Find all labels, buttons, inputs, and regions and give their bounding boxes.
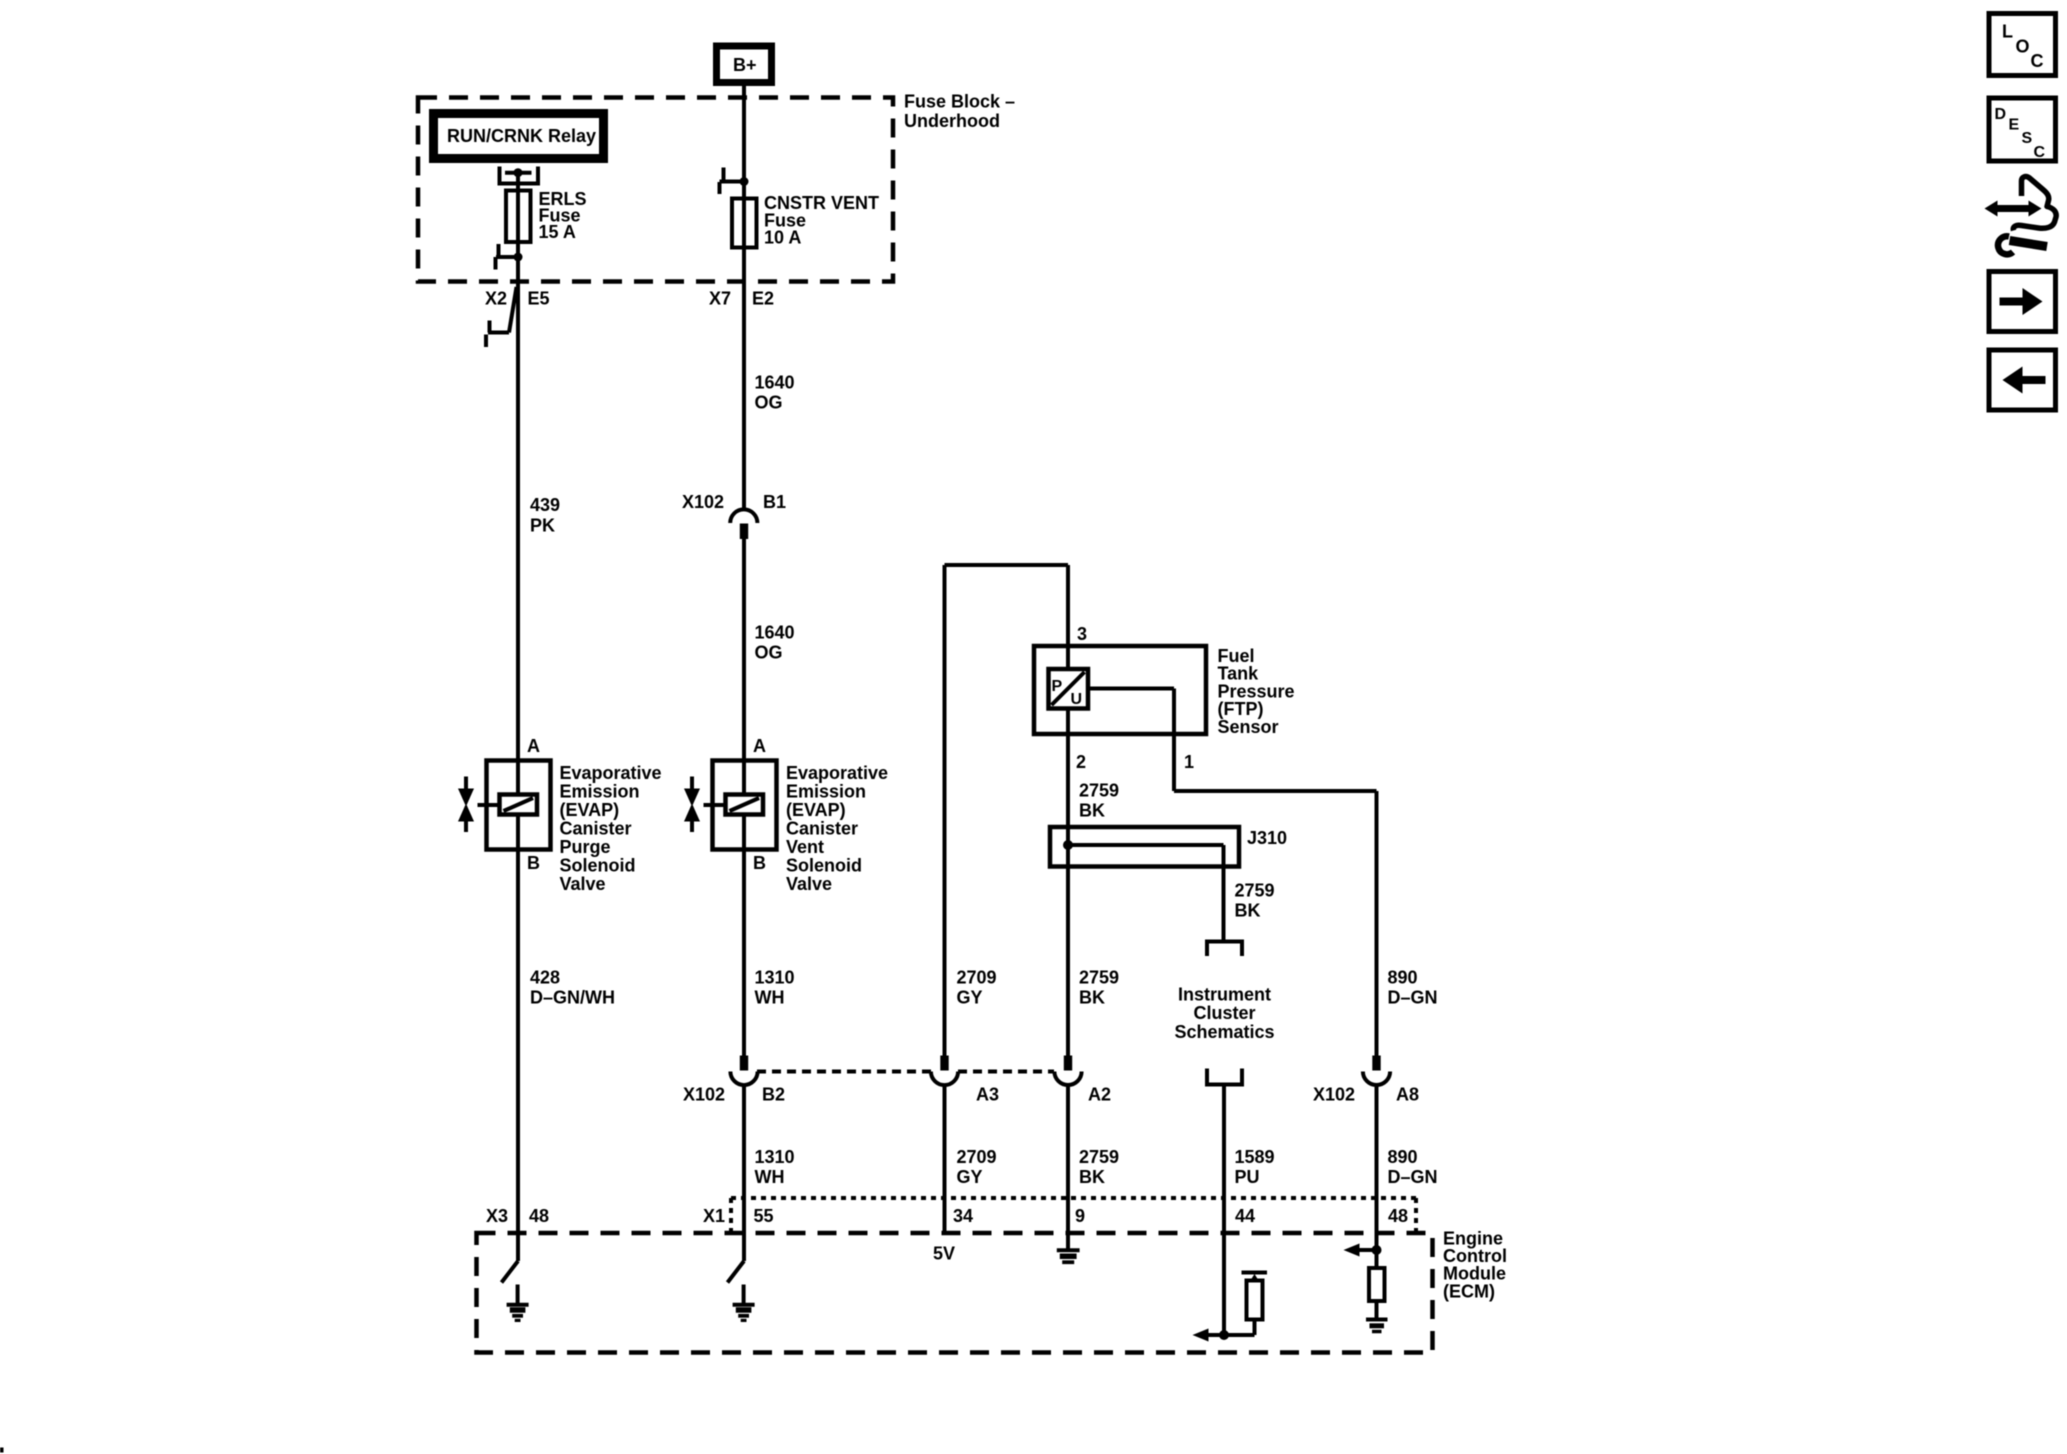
ECM pin 55 (X1) switch blade (728, 1261, 745, 1283)
svg-text:Evaporative: Evaporative (560, 763, 662, 783)
svg-text:X2: X2 (485, 289, 507, 309)
svg-text:Emission: Emission (560, 782, 640, 802)
svg-text:BK: BK (1079, 987, 1105, 1007)
svg-text:B: B (753, 853, 766, 873)
svg-text:Valve: Valve (560, 874, 606, 894)
svg-text:2709: 2709 (957, 1147, 997, 1167)
fuse F1 ERLS 15A (506, 191, 531, 243)
svg-text:U: U (1071, 691, 1083, 708)
svg-text:428: 428 (530, 967, 560, 987)
svg-text:3: 3 (1077, 624, 1087, 644)
wire label 890 D-GN (lower) (1388, 1147, 1438, 1187)
svg-text:E2: E2 (752, 289, 774, 309)
svg-text:A3: A3 (976, 1085, 999, 1105)
svg-text:2709: 2709 (957, 967, 997, 987)
FTP sensor box (1034, 646, 1206, 734)
svg-text:Vent: Vent (786, 837, 824, 857)
icon DESC button (1989, 98, 2056, 161)
node X7/E2 labels (709, 289, 774, 309)
wire label 1310 WH (upper) (755, 967, 795, 1007)
wire label 1640 OG (upper) (755, 372, 795, 412)
svg-text:(EVAP): (EVAP) (560, 800, 620, 820)
icon wiring repair tool (1985, 177, 2057, 255)
wire A8 to ECM pin 48 (1375, 1085, 1379, 1268)
ECM pin 48 signal arrow (1344, 1244, 1382, 1257)
connector X102 pin A8 (1363, 1056, 1390, 1086)
wire B+ to fuse block (742, 86, 746, 168)
svg-text:X3: X3 (486, 1206, 508, 1226)
svg-text:890: 890 (1388, 1147, 1418, 1167)
svg-text:BK: BK (1079, 1167, 1105, 1187)
svg-text:2759: 2759 (1079, 1147, 1119, 1167)
X102 inline connector row dashed line (757, 1070, 1054, 1074)
svg-text:L: L (2002, 22, 2013, 42)
svg-text:(ECM): (ECM) (1443, 1281, 1495, 1301)
wire FTP pin3 drop (1066, 565, 1070, 646)
svg-text:D–GN: D–GN (1388, 1167, 1438, 1187)
svg-text:D: D (1995, 106, 2007, 123)
wire 5V reference feed (horizontal top) (945, 563, 1069, 567)
wire label 2709 GY (upper) (957, 967, 997, 1007)
splice J310 (1050, 827, 1239, 942)
wire label 2759 BK (below J310) (1235, 881, 1275, 921)
wire A2 to ECM pin 9 (1066, 1085, 1070, 1249)
wire purge valve B to ECM X3-48 (516, 850, 520, 1261)
svg-text:Sensor: Sensor (1218, 717, 1279, 737)
wire 2709 GY vertical (943, 565, 947, 1056)
svg-text:X102: X102 (1313, 1085, 1355, 1105)
svg-text:1589: 1589 (1235, 1147, 1275, 1167)
svg-text:9: 9 (1075, 1206, 1085, 1226)
svg-text:48: 48 (1388, 1206, 1408, 1226)
svg-text:PK: PK (530, 516, 555, 536)
svg-text:2: 2 (1076, 752, 1086, 772)
vent valve coil (704, 795, 764, 815)
svg-text:Evaporative: Evaporative (786, 763, 888, 783)
svg-text:WH: WH (755, 1167, 785, 1187)
svg-text:A: A (753, 736, 766, 756)
purge valve actuator triangles (458, 777, 474, 833)
wire label 1640 OG (lower) (755, 622, 795, 662)
icon back arrow button (1989, 350, 2056, 410)
svg-text:D–GN: D–GN (1388, 987, 1438, 1007)
svg-text:GY: GY (957, 987, 983, 1007)
svg-text:X7: X7 (709, 289, 731, 309)
svg-text:B: B (527, 853, 540, 873)
svg-text:1640: 1640 (755, 372, 795, 392)
FTP sensor name (1218, 646, 1295, 737)
svg-text:OG: OG (755, 393, 783, 413)
FTP internal wire pin1 (1088, 689, 1174, 735)
instrument cluster label (1174, 985, 1274, 1042)
ECM pin 48 internal resistor R2 (1369, 1268, 1385, 1318)
svg-text:34: 34 (953, 1206, 973, 1226)
fuse block underhood dashed box (418, 98, 893, 282)
page corner mark (0, 1448, 4, 1453)
off-page connector from instrument cluster (bottom bracket) (1207, 1069, 1242, 1085)
svg-text:15 A: 15 A (539, 222, 576, 242)
wire vent valve B to X102 B2 (742, 850, 746, 1056)
ECM pin 44 signal arrow (1193, 1329, 1255, 1342)
vent valve actuator triangles (684, 777, 700, 833)
svg-text:X1: X1 (703, 1206, 725, 1226)
svg-text:BK: BK (1079, 800, 1105, 820)
svg-text:S: S (2022, 130, 2033, 147)
svg-text:48: 48 (529, 1206, 549, 1226)
icon LOC button (1989, 14, 2056, 76)
svg-text:C: C (2031, 51, 2044, 71)
svg-text:Emission: Emission (786, 782, 866, 802)
wire 890 D-GN from pin1 (1174, 734, 1377, 1056)
wire label 890 D-GN (upper) (1388, 967, 1438, 1007)
ECM dashed box (477, 1233, 1433, 1353)
ECM name (1443, 1229, 1507, 1302)
svg-text:D–GN/WH: D–GN/WH (530, 987, 615, 1007)
svg-text:PU: PU (1235, 1167, 1260, 1187)
wire label 2759 BK (upper row) (1079, 967, 1119, 1007)
wire CNSTR fuse down to X102 B1 (742, 168, 746, 510)
svg-text:BK: BK (1235, 901, 1261, 921)
ground G3 (ECM pin 9) (1057, 1250, 1080, 1262)
connector X102 pin A3 (931, 1056, 958, 1086)
fuse block label (904, 92, 1015, 131)
off-page connector to instrument cluster (top bracket) (1207, 942, 1242, 957)
purge valve coil (478, 795, 538, 815)
svg-text:5V: 5V (933, 1244, 955, 1264)
fuse F2 CNSTR VENT 10A (732, 199, 757, 248)
svg-text:X102: X102 (682, 492, 724, 512)
svg-text:B1: B1 (763, 492, 786, 512)
EVAP canister purge solenoid valve (487, 761, 551, 850)
icon forward arrow button (1989, 272, 2056, 332)
relay contact clip terminal (ERLS top) (500, 167, 539, 184)
svg-text:Fuse Block –: Fuse Block – (904, 92, 1015, 112)
EVAP canister vent solenoid valve (713, 761, 777, 850)
svg-text:B+: B+ (733, 55, 757, 75)
wire A3 to ECM pin 34 (943, 1085, 947, 1235)
svg-text:Solenoid: Solenoid (786, 856, 862, 876)
ground G1 (ECM X3-48) (507, 1285, 529, 1321)
svg-text:O: O (2016, 37, 2030, 57)
svg-text:1640: 1640 (755, 622, 795, 642)
FTP P/U transducer symbol (1049, 646, 1089, 709)
svg-text:2759: 2759 (1235, 881, 1275, 901)
vent valve name (786, 763, 888, 894)
ECM pin row labels (486, 1206, 1408, 1226)
purge valve pin labels A B (527, 736, 540, 873)
svg-text:A: A (527, 736, 540, 756)
svg-text:Instrument: Instrument (1178, 985, 1271, 1005)
wire label 428 D-GN/WH (530, 967, 615, 1007)
svg-text:Purge: Purge (560, 837, 611, 857)
svg-text:E: E (2009, 117, 2020, 134)
svg-text:A2: A2 (1088, 1085, 1111, 1105)
svg-text:J310: J310 (1247, 828, 1287, 848)
svg-text:55: 55 (754, 1206, 774, 1226)
wire label 2759 BK (lower row) (1079, 1147, 1119, 1187)
wire label 1589 PU (1235, 1147, 1275, 1187)
svg-text:1310: 1310 (755, 967, 795, 987)
svg-text:Solenoid: Solenoid (560, 856, 636, 876)
svg-text:E5: E5 (528, 289, 550, 309)
svg-text:Schematics: Schematics (1174, 1022, 1274, 1042)
svg-text:WH: WH (755, 987, 785, 1007)
relay K1 RUN/CRNK (434, 114, 604, 159)
node X2/E5 labels (485, 289, 550, 309)
svg-text:1310: 1310 (755, 1147, 795, 1167)
wire relay clip to fuse (516, 173, 520, 192)
wire label 1310 WH (lower) (755, 1147, 795, 1187)
fuse clip terminal (ERLS bottom) (496, 244, 523, 270)
X102 row labels (683, 1085, 1419, 1105)
svg-text:Valve: Valve (786, 874, 832, 894)
X102 B1 labels (682, 492, 786, 512)
wire label 439 PK (530, 495, 560, 536)
svg-text:P: P (1052, 678, 1063, 695)
connector pass-through clip X2/E5 (486, 287, 517, 347)
svg-text:C: C (2034, 144, 2046, 161)
svg-text:2759: 2759 (1079, 781, 1119, 801)
ECM pin 48 (X3) switch blade (502, 1261, 519, 1283)
wire B1 to EVAP vent valve (742, 539, 746, 760)
svg-text:Canister: Canister (786, 819, 858, 839)
ground G4 (ECM pin 48) (1366, 1320, 1388, 1332)
connector X102 pin B2 (730, 1056, 757, 1086)
svg-text:Canister: Canister (560, 819, 632, 839)
connector X102 pin B1 (730, 509, 757, 539)
purge valve name (560, 763, 662, 894)
svg-text:OG: OG (755, 643, 783, 663)
wire 1589 PU to ECM pin 44 (1222, 1085, 1226, 1336)
svg-text:10 A: 10 A (764, 228, 801, 248)
svg-text:Underhood: Underhood (904, 111, 1000, 131)
svg-text:439: 439 (530, 495, 560, 515)
svg-text:1: 1 (1184, 752, 1194, 772)
wire FTP pin2 down (1066, 709, 1070, 1057)
svg-text:X102: X102 (683, 1085, 725, 1105)
B+ power symbol (717, 46, 772, 83)
svg-text:Cluster: Cluster (1193, 1003, 1255, 1023)
svg-text:RUN/CRNK Relay: RUN/CRNK Relay (447, 126, 596, 146)
wire through purge valve (516, 760, 520, 795)
svg-text:GY: GY (957, 1167, 983, 1187)
vent valve pin labels A B (753, 736, 766, 873)
wire ERLS fuse to X2 connector (516, 176, 520, 760)
ECM pin 44 internal resistor R1 (1242, 1273, 1268, 1336)
wire B2 to ECM pin 55 (742, 1085, 746, 1261)
ground G2 (ECM X1-55) (733, 1285, 755, 1321)
svg-text:2759: 2759 (1079, 967, 1119, 987)
connector X102 pin A2 (1054, 1056, 1081, 1086)
wire through vent valve (742, 760, 746, 795)
svg-text:44: 44 (1235, 1206, 1255, 1226)
svg-text:A8: A8 (1396, 1085, 1419, 1105)
wire label 2709 GY (lower) (957, 1147, 997, 1187)
svg-text:(EVAP): (EVAP) (786, 800, 846, 820)
ECM connector dotted boundary (731, 1198, 1416, 1231)
wire label 2759 BK (pin2) (1079, 781, 1119, 821)
svg-text:B2: B2 (762, 1085, 785, 1105)
fuse clip terminal (CNSTR top) (720, 168, 749, 195)
svg-text:890: 890 (1388, 967, 1418, 987)
